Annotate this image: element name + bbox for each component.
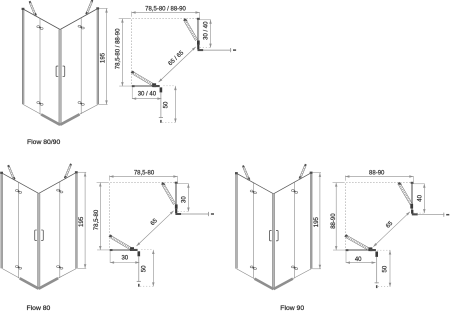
Flow 80 plan: bottom corner bracket	[131, 249, 137, 251]
Flow 90 3D: right wall profile edge	[310, 173, 312, 269]
Flow 80/90 3D: upper left hinge	[37, 26, 40, 28]
Flow 90 3D: left door handle	[270, 230, 272, 240]
Flow 80 plan: bottom door leaf (open)	[109, 234, 113, 237]
Flow 90 3D: top edge left panel	[237, 173, 274, 194]
Flow 90 plan: right fixed panel wall profile	[411, 182, 414, 184]
Flow 90 plan: depth dimension 88-90	[333, 182, 345, 184]
Flow 80/90 3D: left door handle	[56, 66, 58, 76]
Flow 80 3D: right support brace	[66, 165, 72, 179]
Flow 80/90 3D: right wall top cap	[96, 7, 99, 9]
Flow 80 plan: right door leaf (open)	[161, 182, 165, 185]
Flow 80 3D: lower right hinge	[57, 266, 60, 268]
Flow 80/90 plan: wall anchor line right	[203, 49, 231, 51]
Flow 80/90 plan: extension dimension 50	[164, 85, 176, 87]
Flow 80/90 plan: bottom door pivot profile	[152, 83, 156, 87]
Flow 80/90 3D: tray rear-right bottom edge	[80, 105, 98, 115]
Flow 90 3D: height dimension 195	[312, 172, 321, 174]
Flow 90 plan: width dimension 88-90	[344, 176, 346, 181]
Flow 90 plan: bottom corner bracket	[370, 249, 376, 251]
svg-text:88-90: 88-90	[369, 171, 385, 177]
svg-text:78,5-80 / 88-90: 78,5-80 / 88-90	[145, 7, 186, 13]
Flow 90 3D: tray rear-right bottom edge	[293, 269, 311, 279]
Flow 80 3D: center corner post	[37, 193, 40, 288]
Flow 80 3D: upper right hinge	[57, 189, 60, 191]
svg-text:78,5-80 / 88-90: 78,5-80 / 88-90	[116, 28, 122, 69]
Flow 80 3D: right wall profile edge	[75, 172, 77, 268]
Flow 80/90 3D: tray rear-left bottom edge	[23, 104, 41, 114]
Flow 80/90 3D: left support brace	[31, 2, 37, 16]
svg-text:Flow 90: Flow 90	[280, 305, 304, 312]
Flow 80/90 3D: left wall top cap	[22, 8, 25, 10]
Flow 80 3D: right wall top cap	[75, 171, 78, 173]
Flow 90 plan: clear opening dimension 65	[373, 212, 410, 247]
Flow 80 plan: right corner bracket	[175, 209, 177, 214]
Flow 80 3D: left door hinge-side edge	[18, 183, 20, 279]
Flow 90 plan: wall anchor line bottom	[376, 257, 378, 284]
Flow 80/90 plan: wall anchor line bottom	[160, 92, 162, 118]
Flow 80/90 3D: lower left hinge	[37, 102, 40, 104]
Flow 80/90 plan: right door pivot profile	[197, 41, 200, 45]
Flow 80/90 3D: lower right hinge	[78, 102, 81, 104]
Flow 90 plan: wall anchor line right	[418, 214, 445, 216]
Flow 80 plan: right door pivot profile	[175, 204, 178, 208]
Flow 90 3D: tray rear-left bottom edge	[237, 269, 255, 279]
Flow 90 3D: right door hinge-side edge	[294, 182, 296, 278]
Flow 80 3D: lower left hinge	[15, 266, 18, 268]
Flow 80/90 3D: tray front-left thick edge	[41, 114, 60, 124]
Flow 80 3D: top edge right panel	[39, 172, 77, 193]
Flow 90 plan: fixed panel dimension 40	[345, 251, 347, 263]
Flow 80/90 plan: clear opening dimension 65 / 65	[159, 47, 196, 82]
Flow 90 3D: left support brace	[244, 166, 250, 180]
Flow 90 plan: bottom door pivot profile	[368, 247, 372, 251]
Flow 80 3D: left wall profile edge	[1, 173, 3, 268]
Flow 80 3D: top edge left panel	[2, 173, 39, 194]
svg-text:50: 50	[382, 265, 388, 272]
Flow 90 3D: right wall top cap	[310, 172, 313, 174]
Flow 90 3D: tray front-left thick edge	[255, 279, 274, 289]
svg-text:195: 195	[313, 216, 320, 227]
Flow 80 plan: bottom door pivot profile	[130, 247, 134, 251]
svg-text:30: 30	[121, 255, 128, 261]
Flow 80 3D: left support brace	[9, 166, 15, 180]
Flow 90 plan: right corner bracket	[411, 210, 413, 214]
Flow 80/90 plan: bottom fixed panel	[132, 85, 156, 87]
Flow 90 plan: bottom door leaf (open)	[344, 234, 348, 237]
Flow 80 plan: fixed panel dimension 30	[178, 183, 189, 185]
Flow 80 3D: right door hinge-side edge	[59, 182, 61, 278]
Flow 80/90 3D: top edge left panel	[23, 9, 60, 30]
Flow 80/90 3D: right wall profile edge	[97, 9, 99, 105]
Flow 80 3D: height dimension 195	[78, 171, 87, 173]
Flow 80 plan: wall anchor line right	[181, 213, 209, 215]
Flow 80 plan: depth dimension 78,5-80	[97, 182, 109, 184]
svg-text:78,5-80: 78,5-80	[94, 209, 100, 230]
Flow 90 plan: dotted top wall edge	[346, 182, 411, 184]
Flow 80/90 plan: right door leaf (open)	[183, 18, 187, 21]
svg-text:40: 40	[355, 257, 362, 263]
Flow 90 3D: center corner post	[272, 194, 275, 289]
svg-text:30 / 40: 30 / 40	[138, 92, 157, 98]
Flow 90 3D: right support brace	[301, 166, 307, 180]
svg-text:40: 40	[417, 194, 423, 201]
Flow 80 plan: bottom fixed panel	[110, 249, 134, 251]
svg-text:Flow 80/90: Flow 80/90	[27, 139, 60, 146]
Flow 80 3D: left wall top cap	[0, 172, 3, 174]
Flow 80/90 plan: dotted left wall edge	[131, 20, 133, 86]
svg-text:195: 195	[78, 216, 85, 227]
Flow 90 3D: left wall top cap	[235, 172, 238, 174]
Flow 80/90 plan: depth dimension 78,5-80 / 88-90	[119, 18, 131, 20]
Flow 80/90 3D: right support brace	[87, 1, 93, 15]
Flow 90 3D: lower left hinge	[250, 266, 253, 268]
Flow 90 plan: right door pivot profile	[410, 204, 413, 209]
Flow 80 plan: wall anchor line bottom	[138, 256, 140, 282]
Flow 90 3D: left wall profile edge	[236, 173, 238, 268]
Flow 80 plan: dotted top wall edge	[111, 182, 176, 184]
svg-text:78,5-80: 78,5-80	[134, 171, 155, 177]
Flow 80/90 plan: dotted top wall edge	[133, 18, 198, 20]
Flow 80/90 3D: height dimension 195	[99, 7, 108, 9]
Flow 90 plan: fixed panel dimension 40	[414, 183, 425, 185]
Flow 80/90 plan: bottom corner bracket	[153, 85, 159, 87]
Flow 90 3D: right door handle	[276, 230, 278, 240]
Flow 80 3D: tray front-left thick edge	[20, 278, 39, 288]
Flow 90 3D: upper left hinge	[250, 190, 253, 192]
Flow 80/90 plan: width dimension 78,5-80 / 88-90	[131, 12, 133, 17]
Flow 80/90 plan: right corner bracket	[197, 45, 199, 50]
Flow 80 plan: right fixed panel wall profile	[175, 182, 178, 184]
Flow 80/90 3D: tray front-right thick edge	[60, 114, 79, 125]
svg-text:30: 30	[181, 196, 187, 203]
Flow 80 3D: tray front-right thick edge	[39, 278, 58, 289]
Flow 80/90 3D: right door handle	[63, 66, 65, 76]
Flow 90 plan: extension dimension 50	[377, 249, 390, 251]
Flow 80/90 3D: top edge right panel	[60, 9, 98, 30]
Flow 90 plan: dotted left wall edge	[344, 184, 346, 250]
Flow 80/90 plan: fixed panel dimension 30 / 40	[131, 87, 133, 99]
Flow 80/90 plan: right fixed panel wall profile	[197, 18, 200, 20]
Flow 80 plan: width dimension 78,5-80	[109, 175, 111, 180]
Flow 80 plan: clear opening dimension 65	[137, 211, 174, 246]
Flow 80 plan: fixed panel dimension 30	[109, 251, 111, 263]
Flow 80 3D: left door handle	[35, 230, 37, 240]
Flow 90 plan: right door leaf (open)	[397, 182, 401, 185]
Flow 80 3D: upper left hinge	[15, 190, 18, 192]
Flow 80 plan: extension dimension 50	[141, 249, 153, 251]
Flow 80 3D: right door handle	[41, 230, 43, 240]
Flow 90 plan: bottom fixed panel	[345, 249, 370, 251]
svg-text:Flow 80: Flow 80	[27, 305, 51, 312]
Flow 80/90 3D: right door hinge-side edge	[80, 18, 82, 114]
svg-text:195: 195	[100, 52, 107, 63]
Flow 80 3D: tray rear-left bottom edge	[2, 268, 20, 278]
svg-text:50: 50	[141, 265, 147, 272]
Flow 90 3D: upper right hinge	[291, 190, 294, 192]
Flow 80/90 3D: left door hinge-side edge	[39, 19, 41, 115]
Flow 80 plan: dotted left wall edge	[109, 184, 111, 250]
Flow 80/90 3D: left wall profile edge	[22, 9, 24, 104]
Flow 90 3D: lower right hinge	[291, 266, 294, 268]
svg-text:50: 50	[163, 101, 169, 108]
Flow 90 3D: tray front-right thick edge	[274, 279, 293, 290]
Flow 80/90 plan: fixed panel dimension 30 / 40	[200, 19, 211, 21]
Flow 90 3D: top edge right panel	[274, 173, 312, 194]
Flow 80/90 3D: upper right hinge	[78, 25, 81, 27]
svg-text:88-90: 88-90	[331, 213, 337, 229]
Flow 90 3D: left door hinge-side edge	[252, 183, 254, 279]
Flow 80 3D: tray rear-right bottom edge	[58, 269, 76, 279]
Flow 80/90 plan: bottom door leaf (open)	[131, 71, 135, 74]
Flow 80/90 3D: center corner post	[59, 30, 62, 125]
svg-text:30 / 40: 30 / 40	[204, 21, 210, 40]
